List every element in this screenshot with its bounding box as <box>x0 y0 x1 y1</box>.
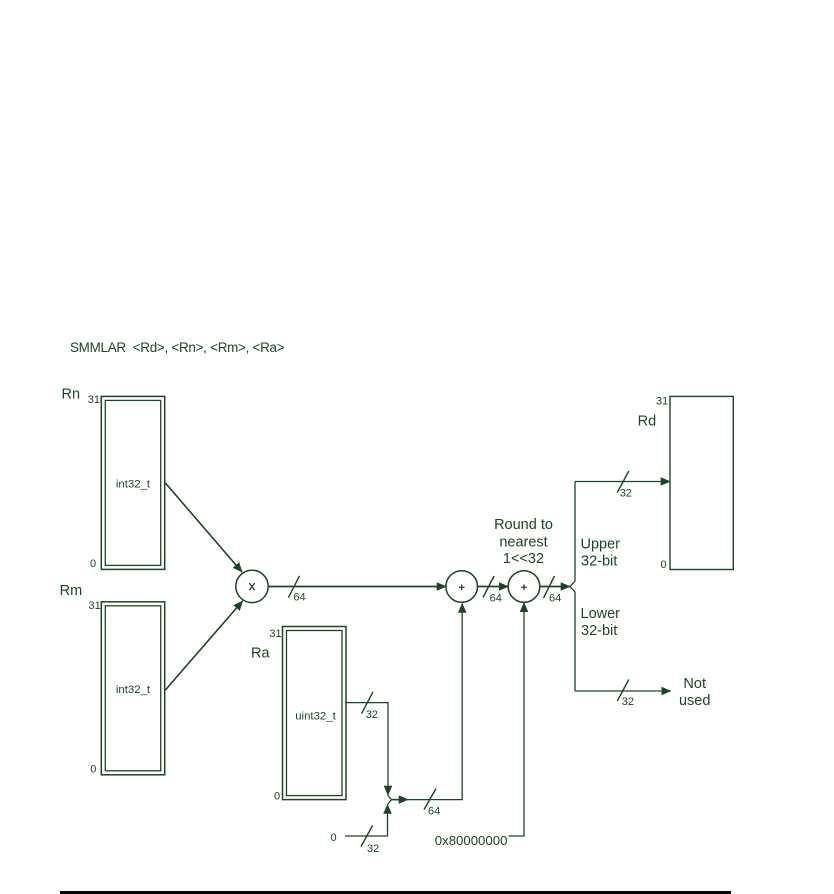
svg-text:Upper: Upper <box>581 536 621 552</box>
svg-text:uint32_t: uint32_t <box>295 711 336 723</box>
svg-text:32-bit: 32-bit <box>581 553 617 569</box>
svg-text:32-bit: 32-bit <box>581 623 617 639</box>
svg-text:1<<32: 1<<32 <box>503 551 544 567</box>
svg-text:int32_t: int32_t <box>116 684 151 696</box>
svg-text:0: 0 <box>274 791 280 803</box>
svg-text:0: 0 <box>90 764 96 776</box>
svg-text:31: 31 <box>269 628 281 640</box>
svg-text:0: 0 <box>661 559 667 571</box>
svg-text:32: 32 <box>620 488 632 500</box>
svg-text:Ra: Ra <box>251 646 270 662</box>
svg-text:0: 0 <box>331 832 337 844</box>
svg-text:64: 64 <box>428 806 440 818</box>
svg-text:SMMLAR <Rd>, <Rn>, <Rm>, <Ra>: SMMLAR <Rd>, <Rn>, <Rm>, <Ra> <box>70 340 285 355</box>
svg-text:Lower: Lower <box>581 606 621 622</box>
svg-text:64: 64 <box>549 593 561 605</box>
svg-text:Rd: Rd <box>638 414 657 430</box>
svg-text:Rm: Rm <box>60 583 83 599</box>
svg-text:64: 64 <box>490 593 502 605</box>
svg-text:64: 64 <box>293 591 305 603</box>
svg-text:int32_t: int32_t <box>116 478 151 490</box>
svg-text:32: 32 <box>622 696 634 708</box>
svg-text:32: 32 <box>367 843 379 855</box>
svg-text:used: used <box>679 693 710 709</box>
svg-text:nearest: nearest <box>499 535 547 551</box>
svg-text:31: 31 <box>88 394 100 406</box>
svg-text:31: 31 <box>656 396 668 408</box>
svg-text:0: 0 <box>90 558 96 570</box>
svg-text:0x80000000: 0x80000000 <box>435 833 508 848</box>
svg-text:Not: Not <box>683 676 706 692</box>
svg-text:31: 31 <box>89 600 101 612</box>
svg-text:Rn: Rn <box>62 387 81 403</box>
svg-text:32: 32 <box>366 709 378 721</box>
svg-text:Round to: Round to <box>494 517 553 533</box>
